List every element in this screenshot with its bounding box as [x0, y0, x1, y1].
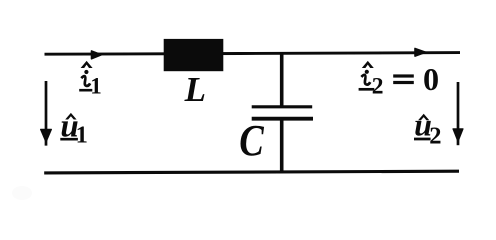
- wire capacitor bottom stem: [280, 118, 284, 172]
- voltage arrow u1 head: [41, 129, 52, 141]
- wire capacitor top stem: [280, 52, 284, 106]
- label i1 phasor underline: [79, 89, 92, 92]
- svg-text:2: 2: [372, 74, 384, 100]
- current arrow i1 head: [92, 51, 102, 59]
- svg-text:0: 0: [423, 61, 439, 97]
- svg-text:1: 1: [90, 74, 102, 99]
- label i2 phasor underline: [359, 88, 375, 91]
- wire top horizontal: [45, 53, 461, 55]
- svg-text:L: L: [184, 70, 206, 109]
- voltage arrow u1 shaft: [45, 81, 48, 146]
- label i2 phasor hat: [362, 61, 374, 68]
- current arrow i2 head: [415, 49, 426, 57]
- faint scan smudge (background artifact): [12, 186, 32, 200]
- svg-text:2: 2: [429, 123, 441, 150]
- equals sign top bar: [393, 74, 414, 77]
- svg-text:1: 1: [76, 121, 88, 148]
- voltage arrow u2 head: [453, 129, 463, 141]
- label i2 phasor body: [361, 75, 370, 85]
- voltage arrow u2 shaft: [457, 82, 460, 145]
- label u1 phasor underline: [60, 138, 78, 141]
- equals sign bottom bar: [393, 81, 414, 84]
- label i1 phasor dot: [84, 70, 88, 74]
- capacitor C bottom plate: [252, 117, 313, 121]
- label i1 phasor hat: [81, 61, 93, 68]
- wire bottom horizontal: [44, 171, 459, 173]
- label i1 phasor body: [81, 76, 90, 86]
- svg-text:C: C: [239, 115, 265, 165]
- capacitor C top plate: [252, 105, 313, 108]
- label u1 phasor hat: [65, 113, 76, 120]
- label u2 phasor underline: [414, 138, 431, 141]
- inductor L body: [164, 39, 224, 71]
- label u2 phasor hat: [418, 114, 429, 121]
- label i2 phasor dot: [365, 70, 369, 74]
